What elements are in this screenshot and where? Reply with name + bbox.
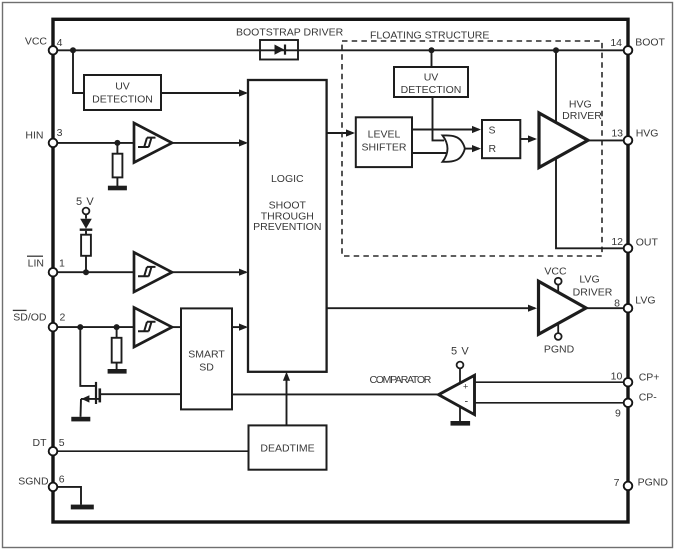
svg-text:BOOT: BOOT bbox=[635, 37, 665, 49]
svg-text:-: - bbox=[465, 396, 469, 408]
pin 14 BOOT bbox=[624, 46, 633, 55]
svg-text:14: 14 bbox=[610, 37, 622, 49]
wire comparator to smart sd bbox=[232, 393, 439, 395]
wire VCC bus y=50 bbox=[53, 49, 628, 51]
wire latch to HVG driver bbox=[520, 138, 535, 140]
wire schmitt A1 to logic bbox=[172, 142, 246, 144]
SMART SD block bbox=[181, 308, 232, 409]
LOGIC block bbox=[248, 80, 327, 372]
schmitt buffer A3 bbox=[134, 308, 172, 348]
LEVEL SHIFTER block bbox=[356, 117, 412, 167]
wire LIN row bbox=[53, 271, 134, 273]
svg-text:8: 8 bbox=[614, 298, 620, 310]
svg-text:LOGIC: LOGIC bbox=[271, 173, 304, 185]
floating structure boundary bbox=[342, 41, 602, 256]
ground bbox=[108, 186, 127, 191]
svg-text:3: 3 bbox=[57, 127, 63, 139]
svg-text:DETECTION: DETECTION bbox=[92, 94, 153, 106]
node SD mosfet tap bbox=[77, 324, 83, 330]
pin 3 HIN bbox=[49, 139, 58, 148]
svg-text:2: 2 bbox=[60, 312, 66, 324]
pin 10 CP+ bbox=[624, 378, 633, 387]
ground bbox=[451, 421, 471, 426]
svg-text:HIN: HIN bbox=[25, 129, 43, 141]
svg-text:5 V: 5 V bbox=[451, 346, 469, 358]
svg-text:SGND: SGND bbox=[18, 476, 49, 488]
pin 7 PGND bbox=[624, 482, 633, 491]
svg-text:R: R bbox=[489, 143, 497, 155]
svg-text:S: S bbox=[489, 125, 496, 137]
UV detection U3 floating bbox=[394, 67, 468, 97]
diode D1 bootstrap bbox=[260, 40, 298, 60]
svg-text:1: 1 bbox=[59, 258, 65, 270]
wire DT row bbox=[53, 450, 249, 452]
node LIN tap bbox=[83, 269, 89, 275]
node HIN resistor tap bbox=[114, 140, 120, 146]
svg-text:FLOATING STRUCTURE: FLOATING STRUCTURE bbox=[370, 30, 489, 42]
pin 2 SD/OD bbox=[49, 323, 58, 332]
svg-text:DT: DT bbox=[33, 437, 48, 449]
pin 13 HVG bbox=[624, 136, 633, 145]
node VCC tap bbox=[70, 47, 76, 53]
pin 6 SGND bbox=[49, 483, 58, 492]
pin 4 VCC bbox=[49, 46, 58, 55]
svg-text:SMART: SMART bbox=[188, 349, 225, 361]
svg-text:PGND: PGND bbox=[638, 477, 669, 489]
svg-text:4: 4 bbox=[57, 37, 63, 49]
pin 8 LVG bbox=[624, 304, 633, 313]
pin 12 OUT bbox=[624, 244, 633, 253]
wire boot to HVG driver bbox=[555, 50, 557, 123]
IC boundary bbox=[53, 19, 628, 522]
svg-text:DRIVER: DRIVER bbox=[562, 110, 602, 122]
svg-text:13: 13 bbox=[611, 127, 623, 139]
svg-text:HVG: HVG bbox=[569, 98, 592, 110]
wire logic to LVG driver bbox=[327, 307, 535, 309]
svg-text:OUT: OUT bbox=[636, 237, 659, 249]
wire HVG driver to pin 13 bbox=[588, 139, 628, 141]
svg-text:SD/OD: SD/OD bbox=[13, 312, 47, 324]
svg-text:+: + bbox=[463, 382, 468, 392]
svg-text:PGND: PGND bbox=[544, 344, 575, 356]
svg-text:9: 9 bbox=[615, 408, 621, 420]
wire to floating UV detection bbox=[431, 50, 433, 67]
resistor R2 bbox=[85, 231, 87, 235]
svg-text:HVG: HVG bbox=[636, 127, 659, 139]
wire pin10 to comparator plus bbox=[475, 381, 629, 383]
svg-text:DEADTIME: DEADTIME bbox=[260, 443, 314, 455]
transistor Q1 bbox=[80, 327, 95, 386]
ground bbox=[108, 369, 127, 374]
resistor R3 bbox=[116, 327, 118, 338]
pin 1 LIN bbox=[49, 268, 58, 277]
svg-text:CP+: CP+ bbox=[639, 372, 660, 384]
ground bbox=[71, 505, 94, 510]
pin 5 DT bbox=[49, 447, 58, 456]
latch U4 S/R bbox=[482, 120, 520, 158]
svg-text:DRIVER: DRIVER bbox=[573, 287, 613, 299]
wire HVG driver to OUT bbox=[556, 158, 628, 248]
svg-text:SHIFTER: SHIFTER bbox=[362, 141, 407, 153]
svg-text:10: 10 bbox=[611, 371, 623, 383]
svg-text:UV: UV bbox=[424, 72, 439, 84]
wire OR to R bbox=[465, 148, 479, 150]
svg-text:CP-: CP- bbox=[639, 392, 658, 404]
wire SGND to ground bbox=[53, 487, 81, 505]
svg-text:SD: SD bbox=[199, 362, 214, 374]
zener diode D2 bbox=[85, 215, 87, 219]
svg-text:5 V: 5 V bbox=[76, 196, 94, 208]
svg-text:LVG: LVG bbox=[579, 274, 599, 286]
DEADTIME block bbox=[249, 425, 327, 469]
wire SD/OD row bbox=[53, 326, 134, 328]
svg-text:6: 6 bbox=[59, 474, 65, 486]
pin 9 CP- bbox=[624, 399, 633, 408]
svg-text:5: 5 bbox=[59, 437, 65, 449]
svg-text:12: 12 bbox=[611, 236, 623, 248]
wire schmitt A3 to smart sd bbox=[172, 326, 181, 328]
wire level shifter to OR gate bbox=[412, 152, 446, 154]
svg-text:VCC: VCC bbox=[25, 36, 48, 48]
svg-text:LIN: LIN bbox=[28, 258, 44, 270]
wire UV detection to logic bbox=[161, 92, 246, 94]
wire LVG driver to pin 8 bbox=[586, 307, 628, 309]
schmitt buffer A2 bbox=[134, 252, 172, 292]
svg-text:COMPARATOR: COMPARATOR bbox=[369, 374, 431, 386]
svg-text:UV: UV bbox=[115, 81, 130, 93]
wire deadtime to logic bbox=[286, 374, 288, 426]
wire logic to level shifter bbox=[327, 132, 353, 134]
svg-text:7: 7 bbox=[614, 477, 620, 489]
OR gate G1 bbox=[443, 135, 465, 161]
node UV2 tap bbox=[429, 47, 435, 53]
wire schmitt A2 to logic bbox=[172, 271, 246, 273]
resistor R1 bbox=[116, 143, 118, 154]
svg-text:LEVEL: LEVEL bbox=[368, 128, 401, 140]
ground bbox=[71, 417, 90, 422]
svg-text:DETECTION: DETECTION bbox=[401, 84, 462, 96]
svg-text:BOOTSTRAP DRIVER: BOOTSTRAP DRIVER bbox=[236, 27, 344, 39]
wire level shifter to S bbox=[412, 129, 479, 131]
schmitt buffer A1 bbox=[134, 123, 172, 163]
wire to UV detection bbox=[73, 50, 84, 93]
UV detection U2 bbox=[84, 75, 161, 110]
node SD resistor tap bbox=[114, 324, 120, 330]
svg-text:PREVENTION: PREVENTION bbox=[253, 221, 321, 233]
HVG driver U5 bbox=[539, 113, 588, 168]
wire pin9 to comparator minus bbox=[475, 402, 629, 404]
svg-text:LVG: LVG bbox=[635, 295, 655, 307]
svg-text:VCC: VCC bbox=[544, 266, 567, 278]
wire HIN row bbox=[53, 142, 134, 144]
wire UV to OR gate bbox=[433, 97, 445, 140]
wire smart sd to logic bbox=[232, 326, 246, 328]
node HVG supply tap bbox=[553, 47, 559, 53]
